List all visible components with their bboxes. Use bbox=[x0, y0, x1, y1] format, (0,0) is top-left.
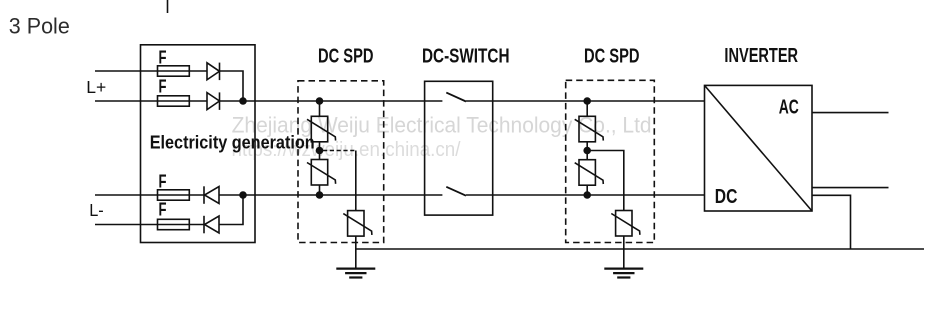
svg-text:3 Pole: 3 Pole bbox=[9, 13, 70, 38]
ground symbol E1 bbox=[336, 269, 375, 278]
node: wire1/wire2 junction bbox=[239, 97, 247, 105]
svg-text:F: F bbox=[159, 48, 167, 68]
SPD2 mid lead bbox=[586, 142, 588, 160]
wire 3: diode to switch bbox=[219, 194, 442, 196]
svg-text:F: F bbox=[159, 172, 167, 192]
AC output wire bottom bbox=[812, 187, 889, 189]
box: electricity generation bbox=[141, 45, 256, 243]
SPD2 varistor RV4 bbox=[575, 116, 604, 142]
wire L+ main (wire 2) left bbox=[95, 100, 207, 102]
svg-text:DC: DC bbox=[715, 186, 738, 208]
SPD1 varistor RV1 bbox=[307, 116, 336, 142]
svg-text:L-: L- bbox=[89, 200, 104, 220]
SPD2 branch from midpoint bbox=[587, 151, 624, 211]
fuse F4 bbox=[158, 219, 190, 229]
DC link to earth bus bbox=[812, 195, 851, 249]
SPD2 ground stem bbox=[623, 236, 625, 268]
switch S2 blade bbox=[446, 187, 466, 196]
SPD2 dashed enclosure bbox=[566, 80, 655, 242]
node: SPD2 top bbox=[583, 97, 591, 105]
SPD1 branch down to RV3 bbox=[355, 151, 357, 211]
SPD1 dashed enclosure bbox=[298, 81, 384, 243]
node: wire3/wire4 junction bbox=[239, 191, 247, 199]
wire 3: switch to inverter bbox=[466, 194, 705, 196]
svg-text:F: F bbox=[159, 200, 167, 220]
inverter box U1 bbox=[705, 85, 813, 211]
node: SPD1 top bbox=[316, 97, 324, 105]
fuse F1 bbox=[158, 66, 190, 76]
ground symbol E2 bbox=[604, 269, 643, 278]
SPD1 varistor RV3 bbox=[343, 211, 372, 237]
svg-text:F: F bbox=[159, 76, 167, 96]
svg-text:L+: L+ bbox=[86, 77, 106, 97]
SPD2 varistor RV6 bbox=[611, 211, 640, 237]
SPD2 lower lead bbox=[586, 185, 588, 195]
diode D4 bbox=[204, 216, 219, 234]
diode D1 bbox=[207, 63, 220, 81]
SPD1 lower lead bbox=[319, 185, 321, 195]
SPD1 dashed branch from midpoint bbox=[323, 150, 356, 152]
wire 2: diode to switch bbox=[220, 100, 443, 102]
wire L- lower (wire 4) bbox=[95, 224, 204, 226]
switch S1 blade bbox=[446, 93, 466, 102]
SPD1 varistor RV1 lead bbox=[319, 101, 321, 116]
node: SPD1 mid bbox=[316, 147, 324, 155]
AC output wire top bbox=[812, 112, 889, 114]
diode D3 bbox=[204, 186, 219, 204]
SPD2 varistor RV4 lead bbox=[586, 101, 588, 116]
node: SPD2 bottom bbox=[583, 191, 591, 199]
SPD2 varistor RV5 bbox=[575, 160, 604, 186]
fuse F2 bbox=[158, 96, 190, 106]
svg-text:Electricity generation: Electricity generation bbox=[150, 133, 315, 153]
DC-SWITCH box bbox=[425, 81, 493, 215]
wire 2: switch to inverter bbox=[466, 100, 705, 102]
svg-text:AC: AC bbox=[779, 97, 799, 119]
wire 4 to node, corner up bbox=[219, 195, 243, 225]
SPD1 ground stem bbox=[355, 236, 357, 268]
SPD1 varistor RV2 bbox=[307, 160, 336, 186]
svg-text:DC SPD: DC SPD bbox=[584, 45, 640, 68]
earth bus wire bbox=[356, 248, 924, 250]
wire L- main (wire 3) left bbox=[95, 194, 204, 196]
wire L+ upper (wire 1) bbox=[95, 70, 207, 72]
svg-text:INVERTER: INVERTER bbox=[724, 45, 798, 67]
top tick mark bbox=[167, 0, 169, 13]
node: SPD2 mid bbox=[583, 147, 591, 155]
fuse F3 bbox=[158, 190, 190, 200]
svg-text:DC SPD: DC SPD bbox=[318, 45, 374, 68]
node: SPD1 bottom bbox=[316, 191, 324, 199]
wire 1 to node, corner down bbox=[220, 71, 244, 101]
svg-text:DC-SWITCH: DC-SWITCH bbox=[422, 46, 510, 68]
SPD1 mid lead bbox=[319, 142, 321, 160]
diode D2 bbox=[207, 92, 220, 110]
